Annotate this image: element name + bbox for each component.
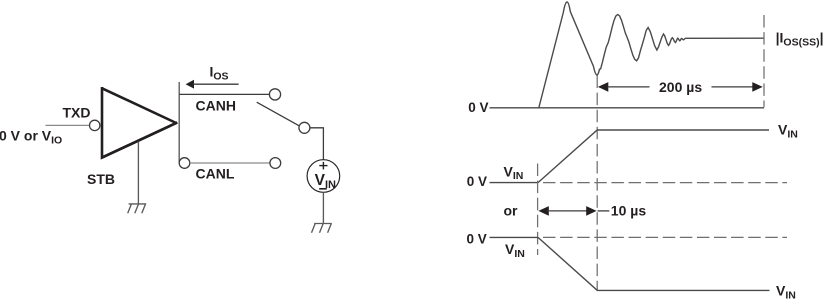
svg-text:0 V: 0 V [467, 232, 487, 247]
node TXD input terminal [90, 120, 100, 130]
svg-text:0 V or VIO: 0 V or VIO [0, 127, 62, 146]
dashed 0V level (VIN fall) [543, 236, 787, 238]
switch lever S1 [257, 102, 300, 126]
dashed line ramp start x=537.6 [537, 164, 539, 256]
svg-text:10 µs: 10 µs [611, 202, 647, 218]
ground STB [128, 204, 147, 213]
svg-text:CANL: CANL [196, 166, 235, 182]
wire output bus vertical [178, 82, 180, 163]
svg-text:IOS: IOS [210, 64, 229, 83]
dashed line settle point x=597 [596, 76, 598, 291]
svg-text:VIN: VIN [504, 163, 524, 182]
wire 0V baseline (VIN rise) [490, 182, 539, 184]
ground VIN source [312, 224, 332, 233]
wire 0V baseline (IOS waveform) [490, 107, 765, 109]
op-amp driver U1 [102, 88, 176, 157]
svg-text:CANH: CANH [196, 97, 236, 113]
wire 200 us arrow line left segment [608, 86, 650, 88]
svg-text:or: or [504, 203, 519, 219]
wire 0V baseline (VIN fall) [490, 236, 539, 238]
svg-text:TXD: TXD [63, 105, 91, 121]
svg-text:0 V: 0 V [468, 100, 488, 115]
arrow 10 us [538, 206, 596, 216]
wire source to ground [322, 192, 324, 223]
dashed 0V level (VIN rise) [543, 182, 787, 184]
wire switch to source [310, 128, 324, 160]
svg-text:200 µs: 200 µs [659, 79, 702, 95]
svg-text:VIN: VIN [505, 241, 525, 260]
IOS ringing waveform [539, 2, 764, 108]
svg-text:0 V: 0 V [467, 174, 487, 189]
svg-text:VIN: VIN [776, 283, 796, 299]
svg-text:|IOS(SS)|: |IOS(SS)| [776, 29, 824, 48]
node CANL right terminal [270, 158, 281, 169]
arrow 200 us left arrowhead [598, 82, 608, 92]
dashed line measurement end x=764 [763, 15, 765, 107]
VIN rising ramp [538, 130, 769, 183]
wire CANL [190, 162, 270, 164]
arrow IOS [186, 80, 239, 89]
wire 200 us arrow line right segment [712, 86, 754, 88]
wire TXD input [46, 124, 90, 126]
voltage source VIN [307, 160, 340, 193]
node switch pole [299, 122, 310, 133]
wire CANH [179, 93, 269, 95]
wire STB [137, 142, 139, 204]
svg-text:STB: STB [87, 171, 115, 187]
svg-text:VIN: VIN [778, 122, 798, 141]
wire 10 us leader [598, 210, 610, 212]
arrow 200 us right arrowhead [752, 82, 762, 92]
node CANL left terminal [179, 158, 190, 169]
VIN falling ramp [538, 237, 770, 290]
node CANH terminal [269, 89, 280, 100]
